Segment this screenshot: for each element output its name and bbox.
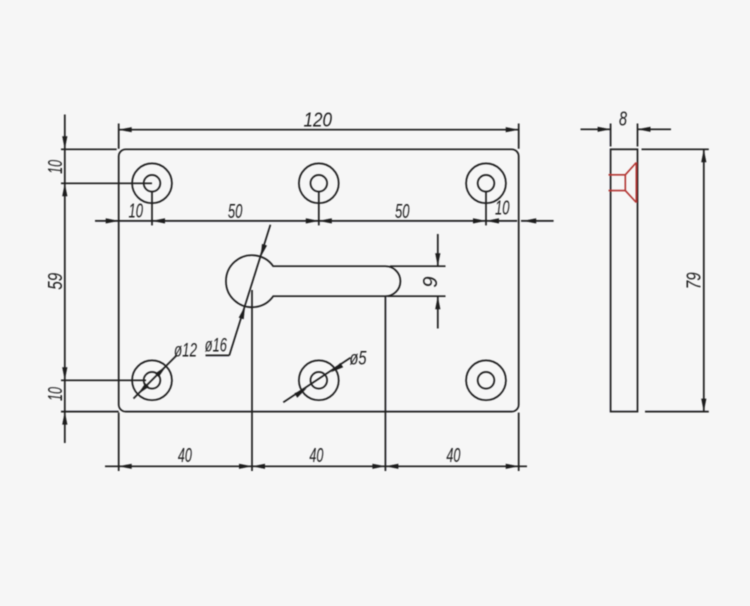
svg-text:40: 40	[178, 445, 192, 467]
dimension chain 10-50-50-10 below top holes	[151, 192, 153, 226]
hole bottom-left inner circle d5	[144, 372, 161, 389]
svg-text:10: 10	[45, 160, 67, 174]
hole top-right outer circle d12	[466, 163, 506, 203]
plate front view outline	[119, 149, 519, 411]
svg-text:10: 10	[495, 198, 510, 220]
leader and label d12 for bottom-left hole	[134, 356, 177, 399]
leader and label d5 for bottom-middle hole	[283, 358, 350, 403]
hole bottom-middle outer circle d12	[299, 360, 339, 400]
dimension 120 top overall width	[118, 124, 120, 149]
svg-text:ø12: ø12	[174, 341, 197, 362]
bottom dimension chain 40-40-40	[118, 413, 120, 471]
side view outline	[611, 149, 638, 411]
leader and label d16 for slot circle	[206, 354, 230, 356]
hole top-left outer circle d12	[132, 163, 172, 203]
svg-text:40: 40	[309, 445, 323, 467]
left dimension column 10-59-10	[61, 148, 117, 150]
svg-text:ø5: ø5	[350, 349, 367, 370]
svg-text:9: 9	[420, 276, 442, 287]
hole top-right inner circle d5	[478, 175, 495, 192]
hole bottom-left outer circle d12	[132, 360, 172, 400]
hole bottom-right inner circle d5	[478, 372, 495, 389]
dimension 8 side view thickness	[610, 124, 612, 147]
svg-text:79: 79	[684, 272, 706, 289]
svg-text:50: 50	[395, 201, 410, 223]
svg-text:10: 10	[129, 201, 144, 223]
svg-text:ø16: ø16	[205, 336, 227, 357]
hole top-middle inner circle d5	[311, 175, 328, 192]
svg-text:120: 120	[304, 110, 333, 132]
svg-text:8: 8	[619, 108, 627, 130]
svg-text:59: 59	[45, 273, 67, 290]
svg-text:50: 50	[228, 201, 243, 223]
svg-text:40: 40	[446, 445, 460, 467]
red countersunk hole section in side view	[609, 174, 626, 176]
keyhole slot outline (d16 circle with 9-wide slot)	[226, 255, 400, 307]
dimension 9 slot width	[390, 265, 446, 267]
hole bottom-middle inner circle d5	[311, 372, 328, 389]
hole bottom-right outer circle d12	[466, 360, 506, 400]
svg-text:10: 10	[45, 387, 67, 401]
hole top-left inner circle d5	[144, 175, 161, 192]
dimension 79 side view height	[642, 148, 709, 150]
hole top-middle outer circle d12	[299, 163, 339, 203]
